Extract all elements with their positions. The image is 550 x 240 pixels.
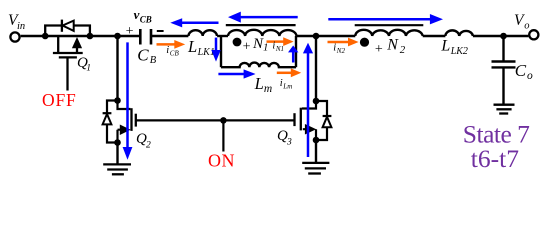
label Lm xyxy=(254,74,273,95)
label iLm xyxy=(280,78,292,91)
polarity dot N1 xyxy=(233,38,242,47)
flow arrow down into Lm (blue) xyxy=(211,38,220,62)
transistor Q2 (vertical MOSFET, gate right) xyxy=(118,101,136,143)
svg-text:1: 1 xyxy=(86,63,91,74)
svg-text:N2: N2 xyxy=(336,47,346,55)
node: Q3 drain xyxy=(313,98,320,105)
label Q3 xyxy=(277,128,292,147)
svg-text:o: o xyxy=(524,20,529,31)
ground (Q2) xyxy=(103,164,131,174)
svg-text:t6-t7: t6-t7 xyxy=(471,144,519,173)
node: Q2 drain xyxy=(114,97,121,104)
svg-text:3: 3 xyxy=(286,136,292,147)
input terminal Vin xyxy=(8,12,25,42)
output terminal Vo xyxy=(514,12,538,39)
wire: Lm right leg xyxy=(295,36,297,67)
current arrow iN1 (orange) xyxy=(267,37,294,46)
node: junction at diode loop left xyxy=(42,33,49,40)
svg-text:2: 2 xyxy=(146,139,151,150)
svg-text:2: 2 xyxy=(400,44,406,56)
node: Q3 source xyxy=(313,137,320,144)
wire: Lm left leg xyxy=(220,36,222,67)
wire: LLK1 to N1 xyxy=(217,35,228,37)
wire: gate bus Q2-Q3 xyxy=(136,119,295,121)
svg-text:o: o xyxy=(527,70,533,82)
svg-text:B: B xyxy=(150,55,157,66)
svg-text:LK2: LK2 xyxy=(450,46,468,57)
winding N1 (4 bumps) xyxy=(228,30,297,36)
wire: input rail from Vin to CB left plate xyxy=(21,35,141,37)
wire: diode bypass loop over Q1 xyxy=(45,26,90,37)
svg-text:+: + xyxy=(375,42,383,57)
svg-text:v: v xyxy=(134,7,140,22)
label LLK2 xyxy=(440,38,468,57)
flow arrow up through Q3 (blue) xyxy=(303,43,313,157)
svg-text:L: L xyxy=(440,38,450,55)
svg-text:L: L xyxy=(254,74,264,93)
svg-text:Lm: Lm xyxy=(282,82,292,90)
svg-text:1: 1 xyxy=(263,42,268,54)
svg-text:CB: CB xyxy=(140,14,152,24)
wire: gate junction to ON xyxy=(222,120,224,151)
wire: N1 to N2 (through Q3 junction) xyxy=(297,35,356,37)
wire: Q2 leg from rail xyxy=(116,36,118,101)
flow arrow right under Lm (blue) xyxy=(218,69,255,78)
node: junction at diode loop right xyxy=(87,33,94,40)
transistor Q3 (vertical MOSFET, gate left) xyxy=(295,101,317,140)
inductor Lm (3 bumps) xyxy=(221,63,296,68)
svg-text:+: + xyxy=(126,24,134,39)
label Q1 xyxy=(77,55,91,74)
node: junction rail / Q2 leg xyxy=(114,33,121,40)
flow arrow down through Q2 (blue) xyxy=(123,42,133,159)
svg-text:+: + xyxy=(243,39,251,54)
wire: Q3 leg from rail xyxy=(315,36,317,101)
svg-text:C: C xyxy=(137,45,149,64)
inductor LLK2 (2 bumps) xyxy=(445,30,473,36)
svg-text:OFF: OFF xyxy=(42,90,77,110)
label CB xyxy=(137,45,157,66)
inductor LLK1 (2 bumps) xyxy=(189,30,217,36)
label Q2 xyxy=(136,131,151,150)
svg-text:CB: CB xyxy=(170,50,180,58)
svg-text:N: N xyxy=(386,37,399,54)
wire: Q3 source to ground xyxy=(315,140,317,163)
label - of CB xyxy=(157,30,164,32)
polarity dot N2 xyxy=(360,38,369,47)
core bar of N2 xyxy=(355,24,424,26)
flow arrow left over LLK1 (blue) xyxy=(170,18,218,27)
svg-text:in: in xyxy=(17,21,25,32)
ground (output) xyxy=(494,105,515,114)
node: rail junction at Q3 xyxy=(313,33,320,40)
svg-text:LK1: LK1 xyxy=(197,47,215,58)
svg-text:C: C xyxy=(515,61,527,80)
label iCB xyxy=(166,45,179,58)
winding N2 (4 bumps) xyxy=(355,30,422,36)
capacitor CB xyxy=(140,29,151,45)
node: gate junction xyxy=(220,117,227,124)
diode D3 (body diode of Q3) xyxy=(316,101,331,140)
ground (Q3) xyxy=(302,163,329,174)
flow arrow right over N2 (blue) xyxy=(328,14,443,24)
svg-text:L: L xyxy=(187,37,197,56)
svg-text:ON: ON xyxy=(208,151,235,171)
label iN2 xyxy=(333,43,345,56)
capacitor Co xyxy=(492,36,516,105)
label + N1 xyxy=(243,36,269,54)
label vCB xyxy=(134,7,152,24)
label iN1 xyxy=(272,40,284,53)
wire: Q2 source to ground xyxy=(116,143,118,165)
current arrow iCB (orange) xyxy=(157,40,186,49)
svg-text:N1: N1 xyxy=(275,45,284,53)
wire: CB to LLK1 xyxy=(151,35,188,37)
flow arrow left over N1 (blue) xyxy=(228,12,298,23)
flow arrow up at Lm right (blue) xyxy=(288,46,298,63)
wire: N2 to LLK2 xyxy=(423,35,446,37)
node: output junction xyxy=(500,33,507,40)
core bar of N1 xyxy=(226,24,296,26)
label Co xyxy=(515,61,533,82)
wire: LLK2 to output xyxy=(473,35,529,37)
label LLK1 xyxy=(187,37,215,58)
diode D2 (body diode of Q2) xyxy=(103,101,118,143)
svg-text:m: m xyxy=(264,83,272,95)
current arrow iN2 (orange) xyxy=(328,38,359,47)
label + N2 xyxy=(375,37,406,57)
transistor Q1 (lateral MOSFET, gate down) xyxy=(53,36,83,91)
current arrow iLm (orange) xyxy=(277,68,301,77)
diode D1 (antiparallel of Q1), cathode left xyxy=(62,20,74,32)
node: Q2 source xyxy=(114,139,121,146)
